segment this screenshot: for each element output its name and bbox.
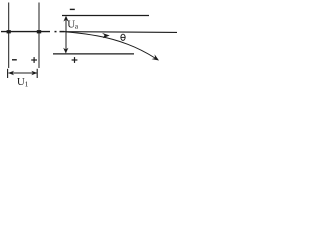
minus sign at left plate xyxy=(12,59,17,61)
angle label theta xyxy=(121,34,126,40)
dimension tick left xyxy=(7,69,9,78)
junction dot at P2 xyxy=(37,30,41,33)
plus sign below bottom plate xyxy=(72,57,78,63)
voltage arrow Ua upper head xyxy=(63,16,68,22)
wire: axis dash-dot dash xyxy=(60,31,65,33)
voltage arrow Ua shaft xyxy=(65,17,67,53)
wire: undeflected axis right segment xyxy=(65,31,178,34)
beam end arrowhead xyxy=(152,54,159,60)
svg-text:1: 1 xyxy=(25,79,29,88)
plate P1 (left electrode) xyxy=(8,3,10,69)
dimension tick right xyxy=(36,69,38,78)
beam mid arrowhead xyxy=(102,33,110,38)
minus sign above top plate xyxy=(70,8,75,10)
deflection plate bottom xyxy=(53,53,134,55)
plus sign at right plate xyxy=(31,57,37,63)
dimension double arrow for U1 xyxy=(9,72,38,74)
wire: axis dash-dot dot xyxy=(55,31,57,33)
electron beam (deflected path) xyxy=(66,32,155,58)
voltage arrow Ua lower head xyxy=(63,48,68,54)
junction dot at P1 xyxy=(7,30,11,33)
deflection plate top xyxy=(62,15,149,17)
wire: beam axis left solid segment xyxy=(1,31,50,33)
plate P2 (right electrode) xyxy=(38,3,40,69)
